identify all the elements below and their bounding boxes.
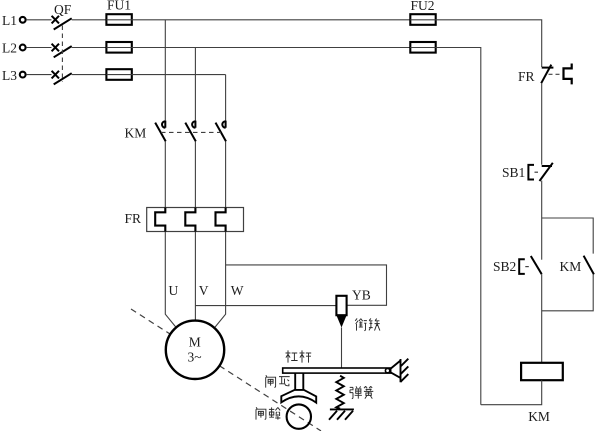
- wire L3 QF to FU1: [72, 74, 107, 76]
- thermal relay FR heater 1: [155, 208, 165, 232]
- spring label tanhuang: [350, 386, 374, 398]
- wire rail SB1 to branch node: [541, 181, 543, 260]
- shaft dashed line: [131, 309, 321, 431]
- lever bar: [283, 368, 391, 373]
- lever label ganggan: [286, 350, 312, 362]
- svg-text:W: W: [231, 283, 244, 298]
- wire phase V vertical upper: [194, 48, 196, 121]
- brake wheel rim: [287, 404, 311, 428]
- contactor KM linkage dashed: [161, 131, 221, 133]
- svg-text:KM: KM: [560, 259, 582, 274]
- terminal L3: [20, 72, 26, 78]
- svg-text:FR: FR: [518, 69, 535, 84]
- spring ground: [329, 409, 354, 419]
- contactor KM main contact 2: [185, 121, 196, 142]
- svg-text:SB1: SB1: [502, 165, 525, 180]
- wire L2 FU2 to left rail: [436, 48, 481, 405]
- coil KM: [521, 363, 563, 380]
- solenoid YB coil: [336, 296, 346, 315]
- wire branch bottom: [542, 274, 594, 310]
- pivot support: [390, 359, 409, 383]
- button SB2 normally open contact: [531, 256, 542, 274]
- wire branch top: [542, 218, 594, 254]
- breaker QF pole 1: [52, 16, 72, 30]
- svg-text:L1: L1: [2, 13, 17, 28]
- svg-text:QF: QF: [54, 2, 72, 17]
- breaker QF linkage dashed: [61, 26, 63, 83]
- wire rail FR to SB1: [541, 83, 543, 164]
- button SB2 dashed link: [525, 266, 531, 268]
- motor M1 circle: [166, 321, 224, 379]
- wire phase W to motor: [214, 232, 226, 329]
- fuse FU1 pole 1: [106, 14, 131, 25]
- wire L1 FU2 to right rail: [436, 20, 542, 67]
- wire phase V to motor: [194, 232, 196, 321]
- wire L1 FU1 to FU2: [132, 19, 411, 21]
- svg-text:KM: KM: [125, 126, 147, 141]
- wire coil to bottom rail: [481, 380, 542, 405]
- svg-text:FR: FR: [125, 211, 142, 226]
- thermal relay FR heater 2: [185, 208, 195, 232]
- wire phase U vertical mid: [164, 141, 166, 207]
- breaker QF pole 3: [52, 71, 72, 85]
- wire L3 to QF: [26, 74, 51, 76]
- wire L1 to QF: [26, 19, 51, 21]
- svg-text:FU1: FU1: [107, 0, 131, 13]
- svg-text:L2: L2: [2, 41, 17, 56]
- relay FR trip symbol: [564, 64, 572, 85]
- svg-text:KM: KM: [528, 409, 550, 424]
- thermal relay FR box: [147, 208, 244, 232]
- fuse FU2 pole 1: [410, 14, 435, 25]
- terminal L2: [20, 45, 26, 51]
- svg-text:V: V: [199, 283, 209, 298]
- button SB1 normally closed contact: [540, 163, 553, 181]
- fuse FU1 pole 3: [106, 69, 131, 80]
- relay contact FR dashed link: [549, 73, 563, 75]
- wire YB branch bottom from V: [195, 305, 336, 307]
- relay contact FR normally closed: [541, 65, 553, 84]
- brake shoe: [281, 390, 316, 403]
- svg-text:L3: L3: [2, 68, 17, 83]
- wire phase W vertical upper: [225, 75, 227, 121]
- armature triangle: [336, 315, 346, 327]
- svg-text:YB: YB: [352, 287, 371, 302]
- button SB1 dashed link: [535, 171, 541, 173]
- wire armature to lever: [341, 328, 343, 369]
- wire L2 to QF: [26, 47, 51, 49]
- svg-text:FU2: FU2: [411, 0, 435, 13]
- contactor KM main contact 3: [216, 121, 227, 142]
- armature label xiantie: [355, 318, 380, 330]
- button SB1 actuator: [528, 165, 534, 180]
- wire YB branch top from W: [226, 265, 387, 305]
- wire L3 FU1 to vertical: [132, 74, 226, 76]
- breaker QF pole 2: [52, 44, 72, 58]
- wire L2 QF to FU1: [72, 47, 107, 49]
- wire phase U vertical upper: [164, 20, 166, 121]
- fuse FU1 pole 2: [106, 42, 131, 53]
- svg-text:M: M: [189, 335, 201, 350]
- svg-text:U: U: [169, 283, 179, 298]
- fuse FU2 pole 2: [410, 42, 435, 53]
- brake wheel label zhalun: [256, 407, 280, 419]
- button SB2 actuator: [519, 259, 525, 274]
- terminal L1: [20, 17, 26, 23]
- wire phase V vertical mid: [194, 141, 196, 207]
- lever pivot circle: [385, 368, 389, 372]
- contactor KM auxiliary contact: [584, 256, 594, 275]
- spring zigzag: [336, 376, 344, 409]
- wire phase W vertical mid: [225, 141, 227, 207]
- brake shoe hanger: [295, 373, 303, 390]
- contactor KM main contact 1: [155, 121, 166, 142]
- wire phase U to motor: [165, 232, 177, 329]
- wire L2 FU1 to FU2: [132, 47, 411, 49]
- wire rail SB2 to coil: [541, 274, 543, 363]
- svg-text:3~: 3~: [188, 350, 202, 365]
- brake shoe label zhawa: [266, 375, 290, 387]
- svg-text:SB2: SB2: [493, 259, 516, 274]
- wire L1 QF to FU1: [72, 19, 107, 21]
- thermal relay FR heater 3: [216, 208, 226, 232]
